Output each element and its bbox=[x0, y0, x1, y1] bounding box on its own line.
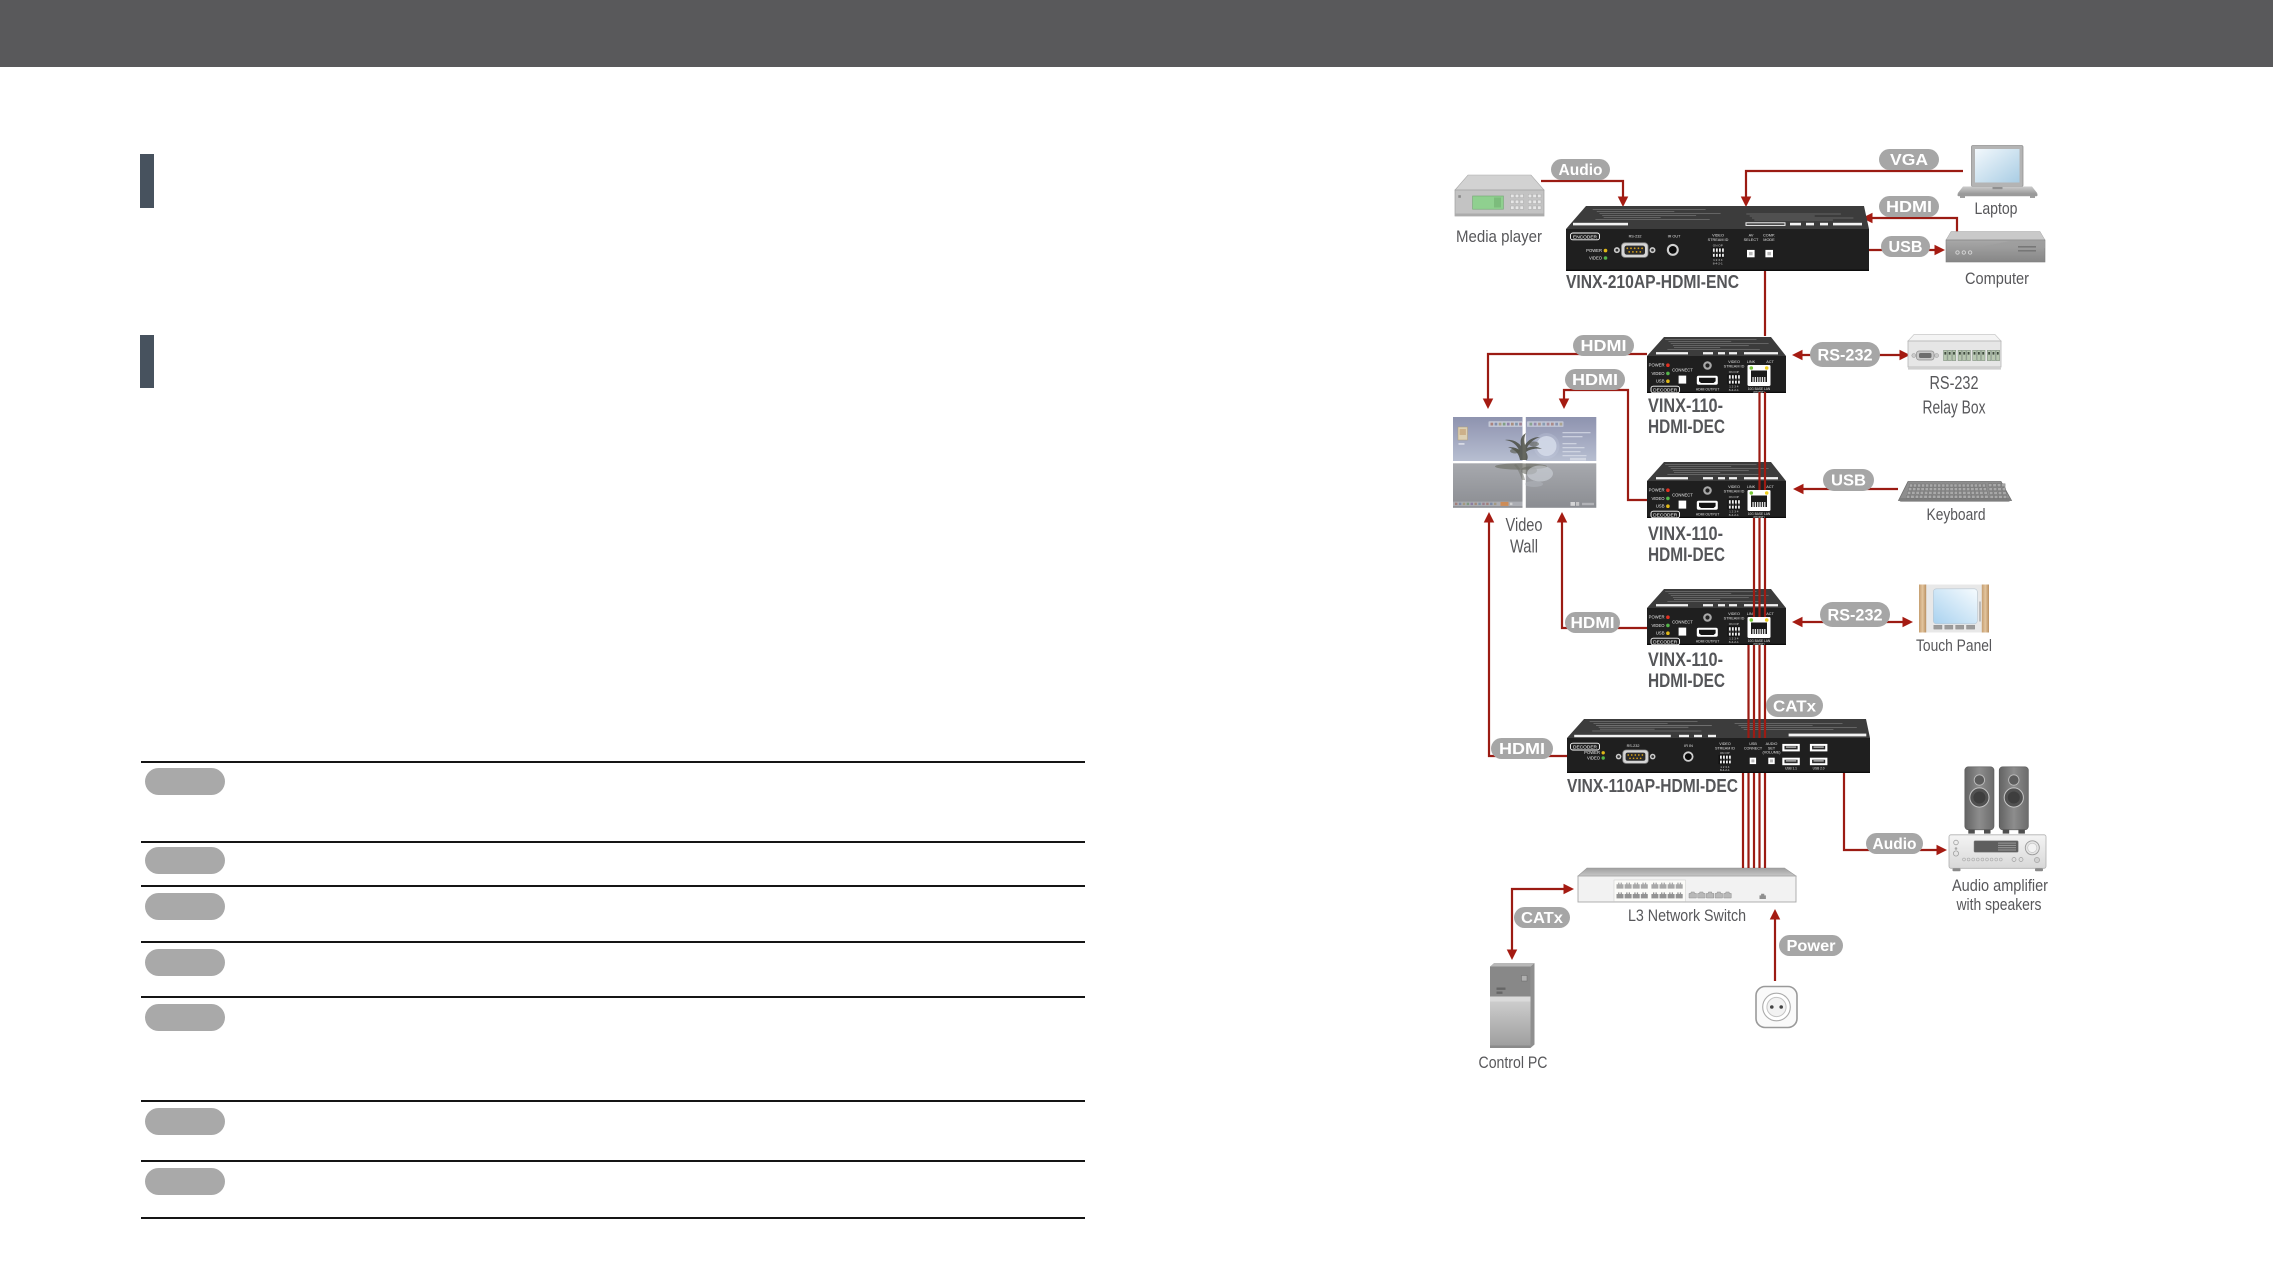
svg-text:Media player: Media player bbox=[1456, 227, 1542, 246]
svg-text:SELECT: SELECT bbox=[1744, 238, 1759, 242]
svg-text:MODE: MODE bbox=[1763, 238, 1775, 242]
svg-text:HDMI: HDMI bbox=[1581, 338, 1627, 355]
svg-text:ON OP: ON OP bbox=[1713, 243, 1723, 247]
svg-text:RS-232: RS-232 bbox=[1818, 346, 1873, 364]
svg-text:Wall: Wall bbox=[1510, 537, 1538, 557]
svg-text:HDMI: HDMI bbox=[1886, 199, 1932, 216]
svg-text:ACT: ACT bbox=[1766, 612, 1774, 616]
svg-text:8-4-2-1: 8-4-2-1 bbox=[1729, 513, 1739, 517]
svg-text:DECODER: DECODER bbox=[1653, 388, 1678, 393]
svg-text:POWER: POWER bbox=[1649, 615, 1665, 620]
svg-text:ACT: ACT bbox=[1766, 360, 1774, 364]
svg-text:VIDEO: VIDEO bbox=[1651, 496, 1665, 501]
svg-text:VINX-110-: VINX-110- bbox=[1648, 396, 1723, 417]
svg-text:ON OP: ON OP bbox=[1720, 751, 1730, 755]
svg-text:STREAM ID: STREAM ID bbox=[1708, 238, 1729, 242]
svg-text:ON OP: ON OP bbox=[1729, 622, 1739, 626]
svg-text:Audio: Audio bbox=[1559, 162, 1603, 179]
svg-text:8-4-2-1: 8-4-2-1 bbox=[1720, 768, 1730, 772]
svg-text:POWER: POWER bbox=[1649, 363, 1665, 368]
svg-text:LINK: LINK bbox=[1747, 485, 1756, 489]
svg-text:Control PC: Control PC bbox=[1479, 1053, 1548, 1072]
svg-text:STREAM ID: STREAM ID bbox=[1724, 489, 1745, 493]
svg-text:Relay Box: Relay Box bbox=[1923, 398, 1986, 418]
svg-text:CATx: CATx bbox=[1521, 910, 1563, 927]
svg-text:HDMI OUTPUT: HDMI OUTPUT bbox=[1696, 387, 1720, 391]
svg-text:CONNECT: CONNECT bbox=[1672, 368, 1693, 373]
svg-text:VIDEO: VIDEO bbox=[1589, 255, 1603, 260]
svg-text:8-4-2-1: 8-4-2-1 bbox=[1729, 388, 1739, 392]
svg-text:ON OP: ON OP bbox=[1729, 370, 1739, 374]
svg-text:8-4-2-1: 8-4-2-1 bbox=[1713, 262, 1723, 266]
svg-text:CONNECT: CONNECT bbox=[1672, 493, 1693, 498]
svg-text:HDMI: HDMI bbox=[1571, 615, 1615, 632]
svg-text:CATx: CATx bbox=[1773, 698, 1816, 715]
svg-text:ACT: ACT bbox=[1766, 485, 1774, 489]
svg-text:HDMI-DEC: HDMI-DEC bbox=[1648, 545, 1725, 566]
svg-text:VIDEO: VIDEO bbox=[1587, 755, 1601, 760]
svg-text:USB: USB bbox=[1889, 239, 1923, 256]
svg-text:RS-232: RS-232 bbox=[1828, 606, 1883, 624]
svg-text:RS-232: RS-232 bbox=[1627, 744, 1640, 748]
svg-text:VIDEO: VIDEO bbox=[1651, 623, 1665, 628]
svg-text:VIDEO: VIDEO bbox=[1728, 360, 1740, 364]
svg-text:HDMI OUTPUT: HDMI OUTPUT bbox=[1696, 512, 1720, 516]
svg-text:Computer: Computer bbox=[1965, 269, 2029, 288]
svg-text:Laptop: Laptop bbox=[1975, 199, 2018, 218]
svg-text:VINX-210AP-HDMI-ENC: VINX-210AP-HDMI-ENC bbox=[1566, 272, 1739, 292]
svg-text:STREAM ID: STREAM ID bbox=[1724, 616, 1745, 620]
svg-text:VINX-110-: VINX-110- bbox=[1648, 650, 1723, 671]
svg-text:USB: USB bbox=[1656, 504, 1665, 509]
svg-text:VIDEO: VIDEO bbox=[1712, 234, 1724, 238]
svg-text:IR OUT: IR OUT bbox=[1668, 235, 1682, 239]
svg-text:ENCODER: ENCODER bbox=[1573, 235, 1598, 240]
svg-text:RS-232: RS-232 bbox=[1629, 235, 1642, 239]
svg-text:DECODER: DECODER bbox=[1573, 745, 1598, 750]
svg-text:VINX-110-: VINX-110- bbox=[1648, 524, 1723, 545]
svg-text:Power: Power bbox=[1787, 938, 1836, 955]
svg-text:STREAM ID: STREAM ID bbox=[1715, 746, 1735, 750]
svg-text:HDMI: HDMI bbox=[1572, 372, 1618, 389]
svg-text:CONNECT: CONNECT bbox=[1672, 620, 1693, 625]
svg-text:HDMI-DEC: HDMI-DEC bbox=[1648, 671, 1725, 692]
svg-text:with speakers: with speakers bbox=[1956, 895, 2042, 914]
svg-text:VINX-110AP-HDMI-DEC: VINX-110AP-HDMI-DEC bbox=[1567, 776, 1738, 796]
svg-text:AV: AV bbox=[1749, 234, 1754, 238]
svg-text:(VOLUME): (VOLUME) bbox=[1762, 750, 1780, 754]
svg-text:Touch Panel: Touch Panel bbox=[1916, 636, 1992, 655]
svg-text:IR IN: IR IN bbox=[1684, 744, 1693, 748]
svg-text:USB: USB bbox=[1656, 379, 1665, 384]
svg-text:Audio: Audio bbox=[1873, 836, 1917, 853]
svg-text:HDMI-DEC: HDMI-DEC bbox=[1648, 417, 1725, 438]
svg-text:DECODER: DECODER bbox=[1653, 640, 1678, 645]
svg-text:8-4-2-1: 8-4-2-1 bbox=[1729, 640, 1739, 644]
svg-text:HDMI OUTPUT: HDMI OUTPUT bbox=[1696, 639, 1720, 643]
svg-text:L3 Network Switch: L3 Network Switch bbox=[1628, 906, 1746, 925]
svg-text:Video: Video bbox=[1506, 515, 1543, 535]
svg-text:USB: USB bbox=[1831, 473, 1866, 490]
svg-text:POWER: POWER bbox=[1586, 248, 1602, 253]
svg-text:VIDEO: VIDEO bbox=[1651, 371, 1665, 376]
svg-text:ON OP: ON OP bbox=[1729, 495, 1739, 499]
svg-text:COMP.: COMP. bbox=[1763, 234, 1775, 238]
svg-text:DECODER: DECODER bbox=[1653, 513, 1678, 518]
svg-text:VIDEO: VIDEO bbox=[1728, 612, 1740, 616]
svg-text:USB 2.0: USB 2.0 bbox=[1813, 767, 1825, 771]
svg-text:Audio amplifier: Audio amplifier bbox=[1952, 876, 2048, 895]
svg-text:HDMI: HDMI bbox=[1499, 741, 1545, 758]
svg-text:STREAM ID: STREAM ID bbox=[1724, 364, 1745, 368]
svg-text:POWER: POWER bbox=[1649, 488, 1665, 493]
svg-text:USB 1.1: USB 1.1 bbox=[1785, 767, 1797, 771]
svg-text:RS-232: RS-232 bbox=[1930, 373, 1979, 393]
svg-text:LINK: LINK bbox=[1747, 360, 1756, 364]
svg-text:USB: USB bbox=[1656, 631, 1665, 636]
svg-text:VGA: VGA bbox=[1890, 152, 1928, 169]
svg-text:Keyboard: Keyboard bbox=[1927, 505, 1986, 524]
svg-text:CONNECT: CONNECT bbox=[1744, 746, 1763, 750]
svg-text:VIDEO: VIDEO bbox=[1728, 485, 1740, 489]
